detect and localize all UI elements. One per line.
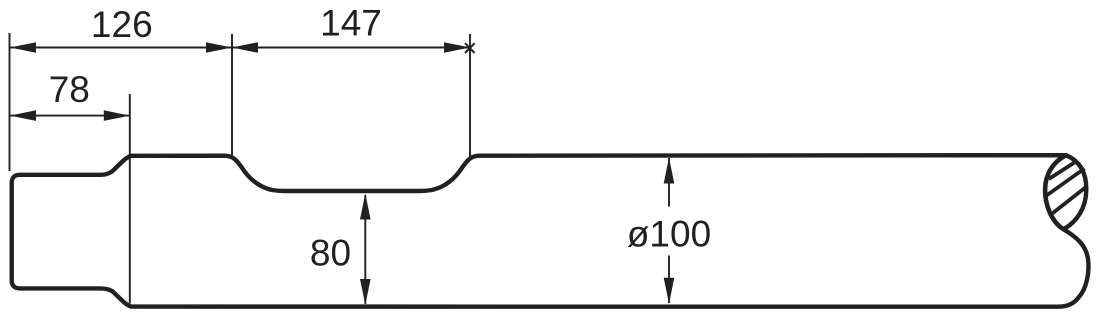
extension line left x=9.5 bbox=[9, 33, 11, 171]
tool body outline bbox=[12, 155, 1089, 307]
arrow up tip y=193.5 bbox=[360, 194, 371, 220]
arrow down tip y=303.8 bbox=[664, 278, 675, 304]
hatch line 2 bbox=[1046, 169, 1085, 197]
arrow pointing right, tip x=470 bbox=[444, 42, 470, 53]
arrow down tip y=305 bbox=[360, 279, 371, 305]
extension line right x=470 bbox=[469, 34, 471, 157]
arrow pointing right, tip x=232 bbox=[206, 42, 232, 53]
svg-text:147: 147 bbox=[320, 3, 382, 44]
hatch line 1 bbox=[1049, 162, 1076, 180]
extension line middle x=232 bbox=[231, 34, 233, 157]
arrow left tip x=9.5 bbox=[10, 110, 36, 121]
arrow pointing left, tip x=232 bbox=[232, 42, 258, 53]
dimension line ø100 upper segment (x=669) bbox=[668, 158, 670, 207]
svg-text:80: 80 bbox=[310, 233, 351, 274]
step edge line at x=130 (also extension for 78) bbox=[129, 94, 131, 304]
cross mark at x=470 bbox=[465, 43, 475, 53]
arrow right tip x=129.8 bbox=[104, 110, 130, 121]
blunt tip lens left arc (cross-section face boundary) bbox=[1045, 155, 1066, 229]
svg-text:78: 78 bbox=[49, 69, 90, 110]
arrow left tip at x=9.5 pointing left bbox=[10, 42, 36, 53]
hatch line 3 bbox=[1050, 186, 1087, 215]
dimension line 78 (y=115.6) bbox=[10, 115, 129, 117]
dimension line ø100 lower segment bbox=[668, 256, 670, 304]
arrow up tip y=157.5 bbox=[664, 158, 675, 184]
dimension line 126/147 (y=47.5) bbox=[10, 47, 469, 49]
svg-text:126: 126 bbox=[91, 4, 153, 45]
dimension line 80 (x=365.3 vertical) bbox=[364, 195, 366, 304]
svg-text:ø100: ø100 bbox=[627, 214, 711, 255]
